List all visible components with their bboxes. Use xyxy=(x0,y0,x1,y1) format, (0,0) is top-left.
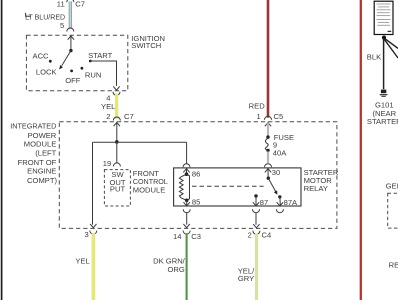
svg-text:DK GRN/: DK GRN/ xyxy=(153,256,186,265)
svg-text:POWER: POWER xyxy=(28,131,57,140)
svg-text:FRONT OF: FRONT OF xyxy=(18,158,57,167)
svg-text:INTEGRATED: INTEGRATED xyxy=(10,122,56,131)
svg-text:87A: 87A xyxy=(284,198,298,207)
svg-text:LOCK: LOCK xyxy=(36,68,57,77)
svg-text:GRY: GRY xyxy=(238,274,254,283)
svg-text:C7: C7 xyxy=(75,0,85,8)
svg-text:START: START xyxy=(88,51,113,60)
svg-text:ACC: ACC xyxy=(33,52,50,61)
svg-text:C4: C4 xyxy=(262,231,272,240)
svg-text:5: 5 xyxy=(60,21,64,30)
svg-text:RELAY: RELAY xyxy=(304,184,328,193)
svg-text:MODULE: MODULE xyxy=(24,140,57,149)
svg-text:YEL: YEL xyxy=(101,102,115,111)
svg-text:87: 87 xyxy=(260,198,268,207)
svg-text:C7: C7 xyxy=(124,112,134,121)
svg-text:RE: RE xyxy=(389,260,398,269)
svg-text:RED: RED xyxy=(249,101,266,110)
svg-text:86: 86 xyxy=(192,169,200,178)
svg-text:GEN: GEN xyxy=(386,182,398,191)
svg-text:3: 3 xyxy=(84,230,88,239)
svg-text:14: 14 xyxy=(173,232,181,241)
svg-text:(LEFT: (LEFT xyxy=(35,149,56,158)
svg-text:19: 19 xyxy=(103,159,111,168)
svg-text:ORG: ORG xyxy=(167,265,184,274)
svg-text:C3: C3 xyxy=(191,232,201,241)
svg-text:SWITCH: SWITCH xyxy=(131,41,161,50)
svg-text:ENGINE: ENGINE xyxy=(27,167,56,176)
svg-text:2: 2 xyxy=(247,231,251,240)
svg-text:4: 4 xyxy=(106,94,110,103)
svg-text:PUT: PUT xyxy=(110,185,126,194)
svg-text:1: 1 xyxy=(256,112,260,121)
svg-text:11: 11 xyxy=(57,0,65,8)
svg-text:RUN: RUN xyxy=(85,70,101,79)
svg-text:BLK: BLK xyxy=(367,53,381,62)
svg-text:YEL: YEL xyxy=(75,257,89,266)
svg-text:2: 2 xyxy=(106,112,110,121)
svg-text:COMPT): COMPT) xyxy=(27,176,57,185)
svg-text:30: 30 xyxy=(272,168,280,177)
svg-text:OFF: OFF xyxy=(65,76,81,85)
svg-text:STARTER: STARTER xyxy=(367,117,398,126)
svg-text:85: 85 xyxy=(192,197,200,206)
svg-text:40A: 40A xyxy=(273,149,287,158)
svg-text:C5: C5 xyxy=(274,112,284,121)
svg-text:MODULE: MODULE xyxy=(133,185,166,194)
